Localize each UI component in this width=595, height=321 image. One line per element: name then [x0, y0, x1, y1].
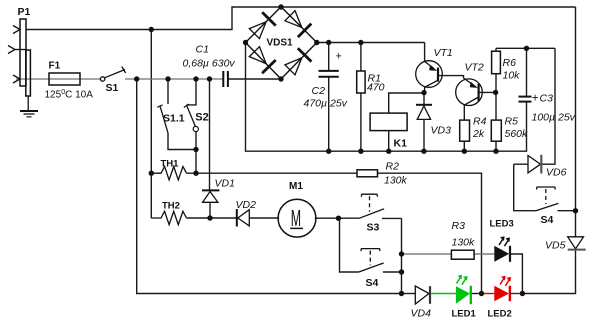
- wire neutral rail: left column down and bottom run: [137, 79, 402, 294]
- wire TH2 left lead: [150, 173, 152, 218]
- capacitor C2: [319, 71, 339, 77]
- junction node (316.8,42.5): [314, 40, 319, 45]
- diode VD2: [237, 209, 250, 227]
- diode VD3: [416, 105, 432, 120]
- svg-text:R2: R2: [386, 161, 400, 173]
- wire mains row after C1 to bridge bottom vertex: [228, 78, 281, 80]
- svg-text:C3: C3: [540, 93, 554, 105]
- junction node (495.6,92.4): [493, 90, 498, 95]
- wire R4 bottom lead: [463, 141, 465, 151]
- fuse F1: [49, 73, 80, 85]
- svg-text:S3: S3: [367, 222, 380, 234]
- svg-text:130k: 130k: [384, 175, 408, 187]
- switch S4 (left section): [359, 249, 384, 272]
- svg-text:2k: 2k: [472, 128, 485, 140]
- junction node (210,218): [207, 215, 212, 220]
- junction node (338.5,218.2): [336, 216, 341, 221]
- junction node (401.5,254): [399, 251, 404, 256]
- resistor R2: [357, 170, 378, 177]
- svg-text:R4: R4: [473, 116, 487, 128]
- relay K1 coil: [370, 113, 407, 131]
- junction node (151.3,173.2): [149, 171, 154, 176]
- LED2 (red): [484, 276, 520, 302]
- wire TH1/R2 row: [187, 172, 358, 174]
- junction node (136.7,79): [134, 76, 139, 81]
- wire VT1 emitter from plus rail: [424, 43, 426, 62]
- wire R3 row left: [402, 253, 452, 255]
- capacitor C1: [223, 71, 228, 87]
- wire motor to S3 node: [315, 217, 360, 219]
- thermistor TH1: [151, 167, 186, 180]
- wire C2 top lead: [328, 43, 330, 71]
- svg-text:M1: M1: [289, 181, 303, 192]
- junction node (209.5,79): [207, 76, 212, 81]
- wire R3 to LED3: [474, 253, 494, 255]
- wire column from top wire down to TH rows: [150, 30, 152, 174]
- wire switch output column down to LED row: [401, 218, 403, 293]
- svg-text:130k: 130k: [452, 237, 476, 249]
- wire S2 column below circle to TH1 row: [195, 132, 197, 174]
- junction node (575.5,210.7): [573, 208, 578, 213]
- svg-text:K1: K1: [394, 138, 408, 150]
- svg-text:R3: R3: [452, 220, 466, 232]
- svg-text:VD6: VD6: [546, 167, 567, 179]
- junction node (281,7): [278, 4, 283, 9]
- motor M1: [278, 199, 316, 237]
- svg-text:470: 470: [367, 82, 385, 94]
- svg-text:R5: R5: [505, 116, 519, 128]
- switch S1: [100, 67, 125, 82]
- wire K1 bottom lead: [388, 131, 390, 152]
- wire R6 bottom to R5 top (divider column): [495, 74, 497, 120]
- LED1 (green): [431, 275, 479, 305]
- bridge diode VDS1-b: [285, 11, 311, 37]
- junction node (168,79): [165, 76, 170, 81]
- svg-text:TH2: TH2: [162, 201, 180, 212]
- junction node (360.9,151.2): [358, 149, 363, 154]
- junction node (196,79): [193, 76, 198, 81]
- wire S4 right post: [383, 271, 402, 273]
- junction node (481.5,293.5): [479, 291, 484, 296]
- svg-text:S1: S1: [106, 82, 119, 94]
- junction node (522.4,293.5): [520, 291, 525, 296]
- svg-text:VD1: VD1: [215, 177, 235, 189]
- svg-text:VD3: VD3: [431, 125, 452, 137]
- junction node (196,149.5): [193, 147, 198, 152]
- thermistor TH2: [151, 211, 186, 224]
- junction node (423.9,151.2): [421, 149, 426, 154]
- svg-text:S2: S2: [195, 112, 208, 124]
- wire S4 right post to AC column: [558, 210, 576, 212]
- svg-text:+: +: [336, 51, 342, 63]
- svg-text:+: +: [532, 92, 539, 104]
- junction node (360.9,42.5): [358, 40, 363, 45]
- junction node (196,173.2): [193, 171, 198, 176]
- wire aux rail right end down to VD6: [542, 48, 555, 164]
- switch S3: [360, 194, 385, 218]
- wire VT2 collector to R4: [463, 105, 465, 120]
- ground: [20, 96, 38, 117]
- svg-text:LED1: LED1: [452, 309, 477, 320]
- wire S1.1 top post: [167, 79, 169, 104]
- wire VD1 anode to TH2 row: [209, 202, 211, 218]
- junction node (281,79): [278, 76, 283, 81]
- switch S4 (right section): [536, 187, 558, 211]
- svg-text:R6: R6: [503, 57, 517, 69]
- svg-text:100µ: 100µ: [532, 112, 556, 124]
- wire LED3 cathode down to LED row: [511, 254, 522, 294]
- diode VD4: [415, 286, 430, 304]
- junction node (151.3,29.5): [149, 27, 154, 32]
- wire C2 bottom lead: [328, 77, 330, 151]
- junction node (401.5,293.5): [399, 291, 404, 296]
- wire S4 branch column and left post: [340, 218, 359, 272]
- switch S2 blade and contact: [187, 105, 196, 126]
- svg-text:560k: 560k: [505, 128, 529, 140]
- junction node (424,92.6): [421, 90, 426, 95]
- diode VD6: [528, 155, 541, 174]
- svg-text:VD4: VD4: [411, 308, 432, 320]
- wire VT1 base to VT2 emitter: [439, 76, 464, 78]
- junction node (328.7,151.2): [326, 149, 331, 154]
- wire VD1 column from mains row: [209, 79, 211, 190]
- svg-text:1250C 10A: 1250C 10A: [45, 89, 94, 101]
- resistor R3: [451, 250, 474, 259]
- connector P1 body: [20, 19, 30, 96]
- wire VD3 column: [423, 93, 425, 152]
- wire aux rail R6/C3: [496, 47, 555, 49]
- svg-text:C1: C1: [196, 44, 209, 56]
- svg-text:LED2: LED2: [488, 309, 512, 320]
- svg-text:P1: P1: [18, 6, 31, 18]
- junction node (401.5,272): [399, 269, 404, 274]
- svg-text:10k: 10k: [503, 70, 521, 82]
- wire S1.1 bottom post to S2 column: [168, 133, 196, 150]
- svg-text:S4: S4: [541, 214, 554, 226]
- wire S3 right post to column: [382, 217, 402, 219]
- bridge rectifier VDS1 edges: [246, 7, 317, 79]
- svg-text:VT1: VT1: [434, 47, 453, 59]
- wire S1 to C1: [125, 78, 222, 80]
- resistor R5: [491, 120, 501, 141]
- diode VD5: [568, 237, 586, 250]
- resistor R6: [492, 51, 501, 73]
- wire VT2 base to divider: [479, 91, 496, 93]
- svg-text:S4: S4: [366, 277, 379, 289]
- transistor VT2: [456, 78, 483, 105]
- wire K1 top lead to VT1 collector node: [389, 93, 424, 113]
- wire VD2 to motor: [249, 217, 279, 219]
- wire VD6 anode left and down to S4: [514, 164, 536, 211]
- wire R6 top lead: [495, 48, 497, 51]
- svg-text:S1.1: S1.1: [163, 113, 185, 125]
- wire DC minus rail from bridge left vertex to C3 bottom: [246, 43, 527, 152]
- bridge diode VDS1-d: [285, 48, 312, 75]
- svg-text:F1: F1: [49, 61, 61, 72]
- wire VD4 anode from junction: [402, 293, 416, 295]
- capacitor C3: [519, 97, 532, 102]
- svg-text:C2: C2: [312, 85, 326, 97]
- wire R1 leads: [360, 43, 362, 152]
- svg-text:0,68µ 630v: 0,68µ 630v: [183, 58, 236, 70]
- svg-text:25v: 25v: [557, 112, 576, 124]
- wire C3 top lead to aux rail: [526, 48, 528, 96]
- transistor VT1: [416, 61, 443, 93]
- resistor R1: [357, 71, 365, 93]
- svg-text:VDS1: VDS1: [267, 38, 294, 49]
- junction node (328.7,42.5): [326, 40, 331, 45]
- svg-text:VD5: VD5: [545, 240, 566, 252]
- junction node (496,151.2): [493, 149, 498, 154]
- svg-text:VD2: VD2: [236, 199, 257, 211]
- junction node (464.3,151.2): [462, 149, 467, 154]
- svg-text:470µ 25v: 470µ 25v: [304, 98, 348, 110]
- wire mains row P1 pin through fuse to S1: [16, 78, 100, 80]
- switch S1.1 blade: [160, 106, 168, 133]
- bridge diode VDS1-c: [249, 47, 275, 73]
- diode VD1: [202, 190, 219, 202]
- resistor R4: [460, 120, 470, 141]
- wire right AC column down to VD5: [522, 7, 575, 294]
- svg-text:VT2: VT2: [465, 62, 484, 74]
- wire mains-L top: P1 top pin to right side: [26, 7, 576, 30]
- svg-text:TH1: TH1: [161, 159, 180, 170]
- junction node (388.7,151.2): [386, 149, 391, 154]
- junction node (245.5,42.5): [243, 40, 248, 45]
- wire TH2 row to VD2: [187, 217, 237, 219]
- connector P1 pin arrows: [8, 26, 26, 84]
- LED3: [494, 236, 510, 262]
- bridge diode VDS1-a: [249, 12, 275, 38]
- wire DC plus rail: [317, 42, 425, 44]
- wire R5 bottom lead: [495, 141, 497, 151]
- wire S2 top post: [187, 79, 197, 105]
- junction node (526.5,48.3): [524, 46, 529, 51]
- svg-text:M: M: [291, 205, 301, 231]
- svg-text:LED3: LED3: [490, 219, 514, 230]
